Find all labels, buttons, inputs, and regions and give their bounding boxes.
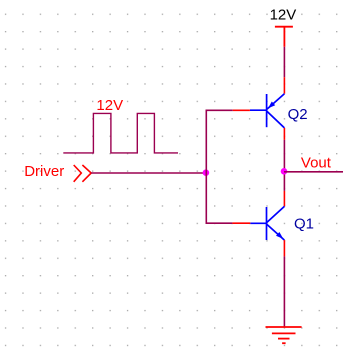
wire input node vertical to both bases xyxy=(206,110,233,223)
power +12V label xyxy=(270,7,297,24)
svg-text:12V: 12V xyxy=(270,7,297,24)
power symbol VCC xyxy=(275,27,293,47)
svg-text:Q2: Q2 xyxy=(288,106,308,123)
node input junction xyxy=(203,169,210,176)
pin Q1 base xyxy=(232,222,250,224)
pin Q2 base xyxy=(233,109,250,111)
wire Vout to right edge xyxy=(284,171,343,173)
pin Q1 collector xyxy=(283,191,285,207)
transistor Q1 (NPN) xyxy=(250,206,284,240)
node Vout junction xyxy=(281,168,288,175)
ground xyxy=(266,327,302,343)
svg-text:12V: 12V xyxy=(96,97,123,114)
transistor Q2 (PNP) xyxy=(250,94,285,128)
pin Q2 collector xyxy=(283,128,285,140)
label 12V pulse amplitude xyxy=(96,97,123,114)
pin Q1 emitter xyxy=(283,240,285,256)
svg-text:Vout: Vout xyxy=(301,155,332,172)
label Q1 xyxy=(294,216,314,233)
wire Driver to input node xyxy=(91,172,206,174)
terminal Driver input chevrons xyxy=(74,165,92,182)
svg-text:Driver: Driver xyxy=(24,163,64,180)
svg-text:Q1: Q1 xyxy=(294,216,314,233)
pulse waveform xyxy=(63,113,178,152)
label Vout xyxy=(301,155,332,172)
pin Q2 emitter xyxy=(283,77,285,94)
label Driver xyxy=(24,163,64,180)
label Q2 xyxy=(288,106,308,123)
wire Q2 collector to Q1 collector (output net) xyxy=(283,140,285,191)
wire Q1 emitter to ground xyxy=(283,256,285,326)
wire power to Q2 emitter xyxy=(283,47,285,77)
